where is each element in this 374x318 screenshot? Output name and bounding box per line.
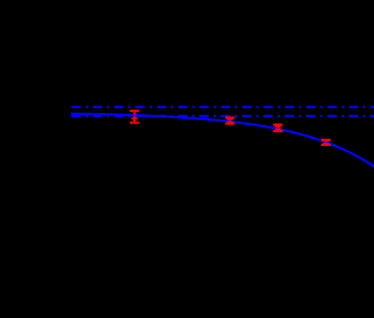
error bar 1 outer top cap: [130, 109, 140, 113]
error bar 1 inner top cap: [131, 113, 137, 117]
error bar 3 caps (x=278): [273, 125, 283, 132]
error bar 2 inner top cap: [227, 117, 233, 121]
error bar 2 stem: [228, 118, 233, 124]
error bar 3 inner bottom cap: [275, 128, 281, 132]
error bar 3 outer bottom cap: [273, 129, 283, 133]
error bar 1 inner bottom cap: [131, 116, 137, 120]
error bar 4 stem overlay: [324, 140, 329, 145]
error bar 3 inner top cap: [275, 124, 281, 128]
error bar stem overlays (purple blend at crossings): [135, 111, 326, 145]
error bar 2 inner bottom cap: [227, 120, 233, 124]
error bar 2 outer top cap: [225, 115, 235, 119]
error bar 4 outer top cap: [321, 138, 331, 142]
dash-dot reference line 1 (upper): [71, 105, 374, 110]
error bar 4 outer bottom cap: [321, 143, 331, 147]
error bar 4 caps (x=326): [321, 140, 331, 145]
error bar 1 caps (x=134.5): [130, 111, 140, 123]
error bar stems (under curve): [131, 111, 326, 145]
error bar 4 inner bottom cap: [323, 142, 329, 146]
error bar 4 inner top cap: [323, 139, 329, 143]
error bar 3 stem: [276, 125, 281, 132]
error bar 1 outer bottom cap: [130, 120, 140, 124]
error bar 2 outer bottom cap: [225, 121, 235, 125]
error bar 3 outer top cap: [273, 122, 283, 126]
error bar 1 stem overlay: [132, 111, 137, 123]
error bar 4 stem: [324, 140, 329, 145]
error bar 1 stem: [132, 111, 137, 123]
error bar 3 stem overlay: [276, 125, 281, 132]
error bar 2 caps (x=230): [225, 118, 235, 124]
dash-dot reference line 2 (lower): [71, 114, 374, 119]
solid fit curve: [71, 114, 374, 167]
error bar 2 stem overlay: [228, 118, 233, 124]
